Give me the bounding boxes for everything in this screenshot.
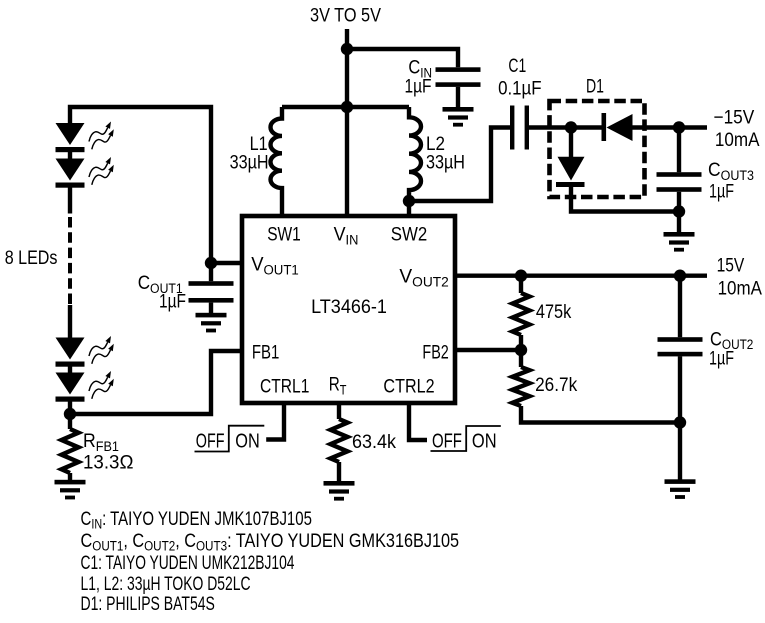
wire FB1 sense path xyxy=(70,351,242,414)
wire 475k top xyxy=(519,276,523,293)
node junction SW2/L2 xyxy=(403,195,415,207)
wire C1 to D1 xyxy=(529,125,603,129)
svg-text:0.1µF: 0.1µF xyxy=(498,76,541,98)
ground below COUT3 xyxy=(664,232,695,252)
wire RT pin xyxy=(337,404,341,419)
node junction LED string / FB1 / RFB1 xyxy=(64,408,76,420)
svg-text:CIN: TAIYO YUDEN JMK107BJ105: CIN: TAIYO YUDEN JMK107BJ105 xyxy=(81,507,312,532)
svg-text:1µF: 1µF xyxy=(709,180,734,202)
LED 4 xyxy=(56,373,85,402)
node junction -15V rail / COUT3 xyxy=(673,121,685,133)
dashed wire (omitted LEDs) xyxy=(68,217,72,305)
dashed package outline D1 xyxy=(550,101,645,197)
ground below CIN xyxy=(443,107,474,127)
light rays LED3 xyxy=(89,336,114,364)
svg-text:RT: RT xyxy=(329,373,347,398)
wire RFB1 to ground xyxy=(68,473,72,482)
svg-text:L1, L2: 33µH TOKO D52LC: L1, L2: 33µH TOKO D52LC xyxy=(81,573,251,595)
wire SW2 node to C1 xyxy=(409,128,510,202)
svg-text:26.7k: 26.7k xyxy=(535,373,578,395)
wire VOUT1 pin stub xyxy=(211,261,242,265)
svg-text:ON: ON xyxy=(235,429,259,452)
wire VIN vertical drop from 3V-5V input to VIN pin xyxy=(345,29,349,216)
wire VOUT2 rail to 15V output xyxy=(456,274,707,278)
ground below COUT2 xyxy=(665,479,696,499)
svg-text:COUT1, COUT2, COUT3: TAIYO YUD: COUT1, COUT2, COUT3: TAIYO YUDEN GMK316B… xyxy=(81,530,460,554)
switch OFF/ON for CTRL1 xyxy=(195,426,265,452)
ground below RT xyxy=(324,481,355,501)
wire to CIN xyxy=(347,49,458,67)
svg-text:D1: PHILIPS BAT54S: D1: PHILIPS BAT54S xyxy=(81,593,215,615)
LED 3 xyxy=(56,338,85,367)
wire LED string top rail to VOUT1 column xyxy=(70,107,211,263)
switch OFF/ON for CTRL2 xyxy=(431,426,501,451)
svg-text:−15V: −15V xyxy=(714,105,755,127)
wire LED2 down xyxy=(68,186,72,214)
resistor 26.7k xyxy=(513,367,530,406)
wire CTRL1 pin to switch xyxy=(266,404,284,440)
svg-text:VOUT2: VOUT2 xyxy=(399,266,449,289)
node junction VOUT1/COUT1 xyxy=(205,257,217,269)
svg-text:SW2: SW2 xyxy=(391,223,427,244)
svg-text:C1: C1 xyxy=(508,55,526,77)
light rays LED1 xyxy=(89,122,114,150)
node junction COUT2 bottom xyxy=(674,416,686,428)
wire FB2 pin xyxy=(456,348,521,352)
LED 1 xyxy=(56,123,85,152)
light rays LED4 xyxy=(89,371,114,399)
capacitor COUT2 xyxy=(658,276,703,480)
svg-text:33µH: 33µH xyxy=(426,151,465,173)
svg-text:10mA: 10mA xyxy=(715,128,760,150)
svg-text:CTRL1: CTRL1 xyxy=(260,375,309,397)
ground below COUT1 xyxy=(196,313,227,333)
svg-text:D1: D1 xyxy=(586,75,604,97)
node junction VIN/rail xyxy=(341,101,353,113)
wire 475k bottom to FB2 node xyxy=(519,335,523,350)
inductor L2 xyxy=(409,107,421,216)
svg-text:C1: TAIYO YUDEN UMK212BJ104: C1: TAIYO YUDEN UMK212BJ104 xyxy=(81,552,295,574)
wire D1b cathode to COUT3 bottom xyxy=(571,187,679,212)
svg-text:COUT3: COUT3 xyxy=(708,158,754,183)
node junction inside D1 xyxy=(565,121,577,133)
wire rail connecting L1, VIN, L2 xyxy=(282,105,409,109)
node junction VOUT2 rail / COUT2 xyxy=(674,270,686,282)
ground below RFB1 xyxy=(55,480,86,500)
svg-text:LT3466-1: LT3466-1 xyxy=(311,295,387,317)
wire 26.7k top stub xyxy=(519,350,523,367)
wire CTRL2 pin to switch xyxy=(409,404,427,440)
node junction VOUT2/475k xyxy=(515,270,527,282)
wire node to D1b xyxy=(569,128,573,158)
op-amp/converter IC U1 LT3466-1 box xyxy=(242,216,455,403)
svg-text:CTRL2: CTRL2 xyxy=(383,375,434,397)
svg-text:10mA: 10mA xyxy=(718,277,763,299)
resistor RFB1 xyxy=(62,429,79,473)
svg-text:FB2: FB2 xyxy=(422,340,448,363)
svg-text:FB1: FB1 xyxy=(252,341,279,363)
capacitor COUT3 xyxy=(657,128,702,233)
light rays LED2 xyxy=(89,157,114,185)
svg-text:OFF: OFF xyxy=(196,429,225,452)
node junction COUT3 bottom xyxy=(673,205,685,217)
inductor L1 xyxy=(271,107,283,216)
resistor 475k xyxy=(513,293,530,335)
svg-text:VOUT1: VOUT1 xyxy=(251,254,299,277)
svg-text:RFB1: RFB1 xyxy=(83,429,119,454)
svg-text:OFF: OFF xyxy=(432,430,462,453)
wire LED1-LED2 xyxy=(68,150,72,159)
wire dashed to LED3 xyxy=(68,305,72,338)
diode D1a horizontal (cathode left) xyxy=(602,113,633,141)
svg-text:1µF: 1µF xyxy=(709,348,734,370)
svg-text:1µF: 1µF xyxy=(405,75,432,97)
capacitor CIN xyxy=(436,67,481,107)
capacitor C1 xyxy=(510,106,529,150)
resistor RT 63.4k xyxy=(331,419,348,462)
LED 2 xyxy=(56,159,85,188)
node junction input/CIN xyxy=(341,43,353,55)
wire LED3-LED4 xyxy=(68,365,72,373)
wire D1a to -15V output xyxy=(631,125,707,129)
diode D1b vertical (cathode down) xyxy=(556,157,585,187)
svg-text:8 LEDs: 8 LEDs xyxy=(5,246,58,268)
svg-text:475k: 475k xyxy=(536,300,572,322)
svg-text:ON: ON xyxy=(472,429,497,452)
node junction FB2 divider xyxy=(515,344,527,356)
wire 26.7k bottom to COUT2 bottom xyxy=(521,406,680,423)
svg-text:SW1: SW1 xyxy=(267,223,301,245)
svg-text:15V: 15V xyxy=(717,254,745,276)
svg-text:3V TO 5V: 3V TO 5V xyxy=(310,4,381,26)
svg-text:1µF: 1µF xyxy=(159,290,186,312)
capacitor COUT1 xyxy=(189,263,234,313)
svg-text:VIN: VIN xyxy=(334,223,359,248)
svg-text:63.4k: 63.4k xyxy=(352,430,397,452)
svg-text:33µH: 33µH xyxy=(230,151,269,173)
wire RT to ground xyxy=(337,462,341,483)
wire LED4 to RFB1 xyxy=(68,399,72,429)
svg-text:13.3Ω: 13.3Ω xyxy=(83,452,133,473)
